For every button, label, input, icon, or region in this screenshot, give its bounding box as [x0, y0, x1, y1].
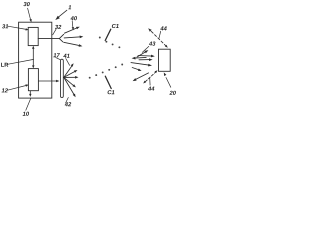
label C1 top [112, 24, 119, 28]
label 32 [55, 25, 61, 29]
label C1 bottom leader [105, 76, 111, 88]
fan arrow 41e [64, 77, 76, 97]
label 30 leader [28, 8, 32, 22]
fan arrow 40a [64, 27, 79, 34]
label 41 [63, 54, 69, 58]
label C1 bottom [108, 90, 115, 94]
label LR leader [8, 59, 34, 64]
label 31 leader [8, 26, 29, 30]
label 20 leader [164, 72, 171, 87]
fan arrow 41c [64, 76, 79, 79]
wire from 12 to lens, arrow right [38, 80, 59, 83]
housing box 10 [19, 22, 52, 98]
cluster arrow 43a NE [137, 50, 148, 57]
label 42 [65, 102, 71, 106]
label 1 [68, 5, 71, 9]
cluster arrow 43g SW [133, 73, 149, 81]
label LR [1, 63, 8, 67]
label 43 [149, 42, 155, 46]
label 42 leader [66, 98, 69, 104]
label 41 leader [66, 59, 70, 66]
wire from 31 to exit point 32 [38, 38, 59, 40]
cluster arrow 43f SE short [132, 68, 141, 72]
label 44 top [160, 26, 166, 30]
label 12 leader [8, 84, 29, 90]
inner rect 12 (detector) [28, 69, 38, 91]
cluster arrow 43b W [132, 57, 147, 60]
label 44 bottom [148, 87, 154, 91]
lens bar 42 [61, 59, 64, 97]
dashed double arrow 44 top [148, 28, 168, 47]
label 1 leader [55, 10, 67, 20]
label 12 [2, 88, 8, 92]
cluster arrow 43e E mid [131, 63, 152, 67]
connector double arrow between 31 and 12 [32, 46, 35, 69]
label 17 [53, 53, 60, 57]
down arrow from rect 12 to box bottom [29, 91, 31, 97]
label 43 leader [142, 46, 149, 52]
label 17 leader [56, 58, 60, 60]
dotted cone line C1 lower [89, 64, 123, 79]
dotted cone line C1 upper [99, 37, 121, 49]
label 30 [23, 2, 29, 6]
label 10 [23, 112, 29, 116]
label 10 leader [26, 98, 31, 110]
beam fork at exit [59, 34, 63, 42]
fan arrow 40b [64, 36, 83, 39]
label 31 [2, 24, 8, 28]
label C1 top leader [105, 29, 111, 40]
receiver box 20 [159, 49, 171, 71]
label 20 [169, 91, 175, 95]
cluster arrow 43c E upper [138, 55, 155, 58]
label 40 leader [72, 21, 74, 30]
fan arrow 41a [64, 63, 74, 77]
fan arrow 41d [64, 77, 76, 87]
cluster arrow 43d E lower [139, 58, 153, 61]
inner rect 31 (source) [28, 27, 38, 45]
label 44 bottom leader [149, 78, 151, 85]
label 40 [71, 16, 77, 20]
label 44 top leader [159, 31, 161, 38]
fan arrow 40c [64, 42, 83, 47]
fan arrow 41b [64, 70, 78, 77]
label 32 leader [53, 29, 56, 35]
dashed double arrow 44 bottom [143, 70, 157, 83]
